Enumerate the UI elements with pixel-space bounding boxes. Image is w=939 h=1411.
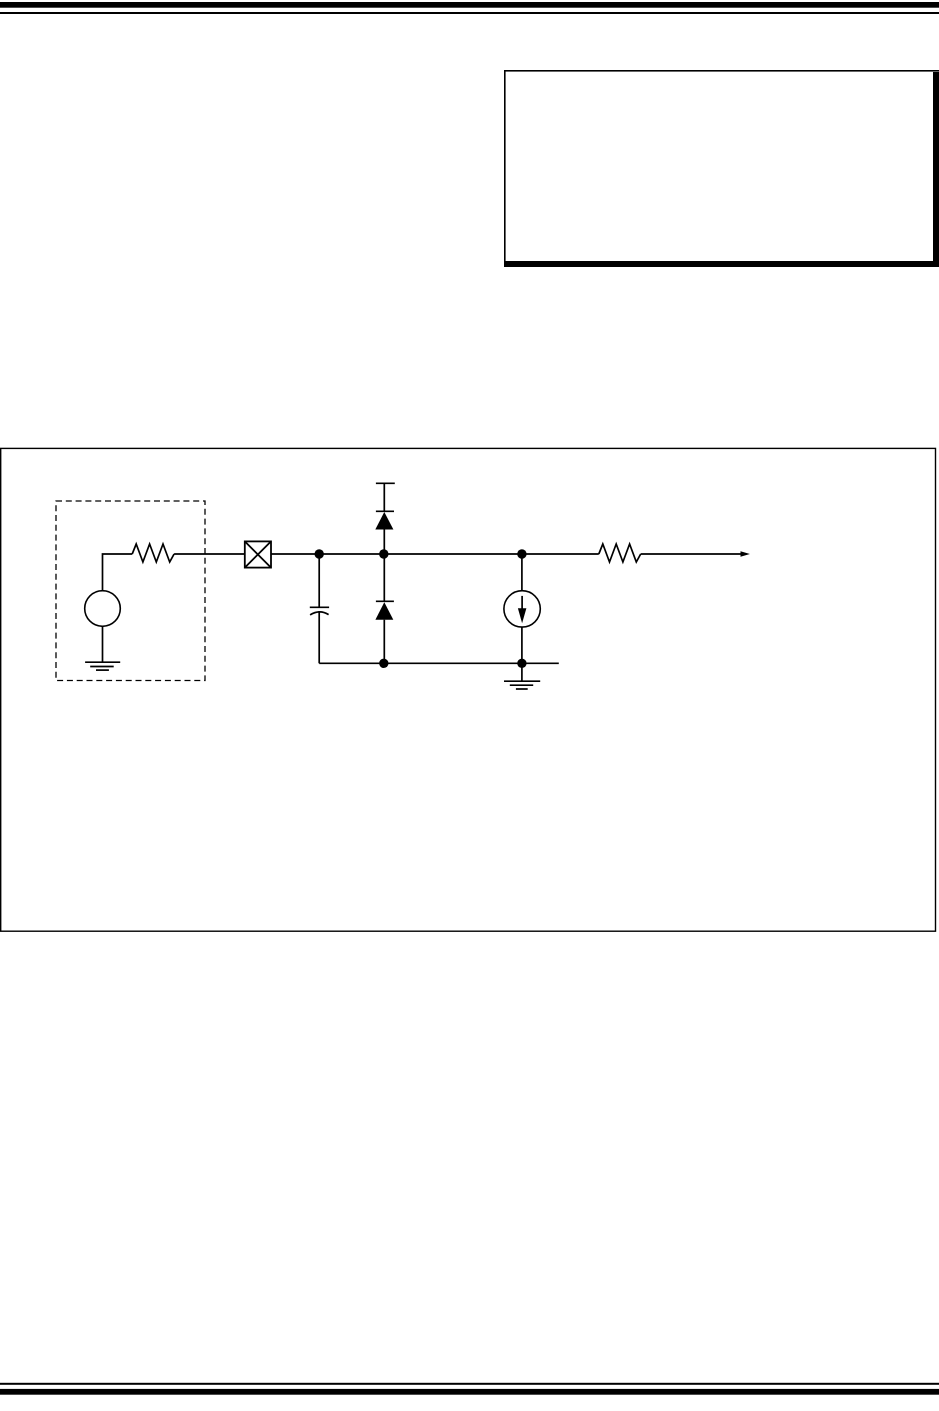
wire resistor to pad bbox=[174, 553, 244, 555]
bottom rail wire bbox=[319, 662, 559, 664]
current source I bbox=[504, 591, 540, 627]
junction dot (current source on rail) bbox=[517, 659, 526, 668]
wire capacitor to bottom rail bbox=[318, 611, 320, 663]
footer rule thin bbox=[0, 1383, 939, 1385]
VCC rail bbox=[376, 483, 395, 511]
source box (dashed) bbox=[56, 501, 205, 681]
resistor RO (output series) bbox=[599, 544, 641, 562]
wire D2 to bottom rail bbox=[383, 620, 385, 664]
wire node to capacitor bbox=[318, 554, 320, 607]
footer rule thick bbox=[0, 1389, 939, 1395]
wire D1 to node bbox=[383, 530, 385, 555]
wire pad to output resistor bbox=[271, 553, 599, 555]
wire node to current source bbox=[521, 554, 523, 591]
diode D1 (to VCC) bbox=[375, 511, 394, 529]
ground (source) bbox=[85, 626, 120, 670]
header rule thin bbox=[0, 12, 939, 14]
pad symbol (crossed box) bbox=[245, 541, 271, 567]
wire node to D2 bbox=[383, 554, 385, 601]
node dot (cap branch) bbox=[315, 549, 324, 558]
header rule thick bbox=[0, 2, 939, 8]
title box (top-right, shadowed) bbox=[504, 70, 939, 267]
capacitor C bbox=[310, 607, 329, 615]
node dot (diode branch) bbox=[379, 549, 388, 558]
resistor RS (source series) bbox=[132, 544, 174, 562]
wire current source to bottom rail bbox=[521, 627, 523, 663]
voltage source V bbox=[85, 591, 121, 627]
diode D2 (to GND) bbox=[375, 601, 394, 619]
node dot (current source branch) bbox=[517, 549, 526, 558]
wire from source to resistor bbox=[103, 554, 133, 591]
ground (rail) bbox=[504, 663, 540, 689]
output wire with arrow bbox=[641, 551, 750, 557]
junction dot (diode on rail) bbox=[379, 659, 388, 668]
figure frame bbox=[1, 448, 936, 931]
